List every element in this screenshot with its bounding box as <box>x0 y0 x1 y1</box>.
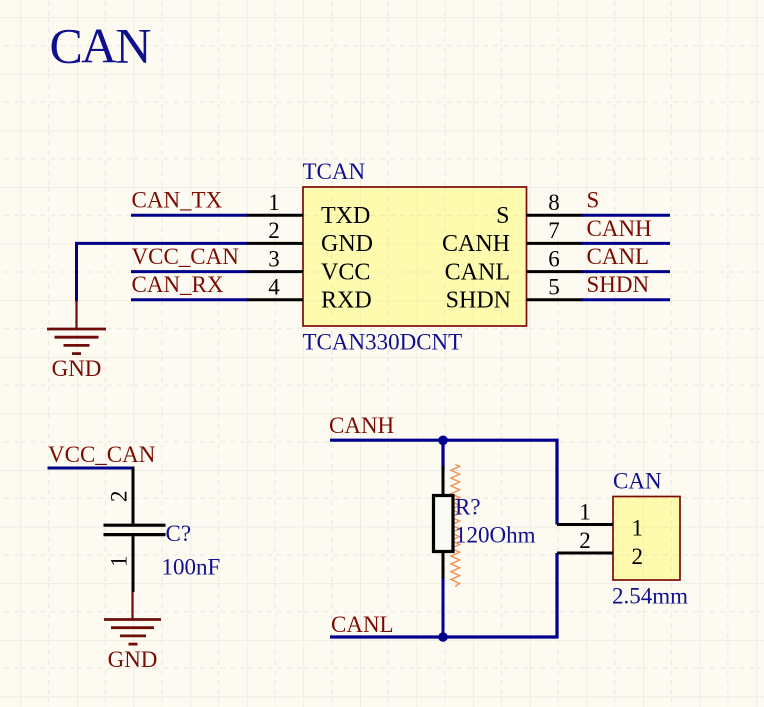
junction CANL <box>438 632 448 642</box>
svg-text:VCC: VCC <box>321 259 370 285</box>
wire CANL (pin 6) <box>582 270 671 273</box>
pin 5 SHDN <box>446 275 583 314</box>
wire SHDN <box>582 298 671 301</box>
svg-text:VCC_CAN: VCC_CAN <box>132 244 240 269</box>
svg-text:TCAN330DCNT: TCAN330DCNT <box>303 330 463 355</box>
wire CAN_TX <box>131 214 248 217</box>
wire VCC_CAN (bottom) <box>48 467 134 470</box>
svg-text:5: 5 <box>548 275 560 300</box>
svg-text:7: 7 <box>548 218 560 243</box>
wire GND (pin 2) <box>77 243 249 301</box>
svg-text:1: 1 <box>268 190 280 215</box>
connector CAN body <box>613 497 680 581</box>
pin 4 RXD <box>247 275 372 314</box>
pin 7 CANH <box>442 218 583 257</box>
svg-text:CAN_TX: CAN_TX <box>132 188 223 213</box>
pin 1 TXD <box>247 190 371 229</box>
svg-text:2: 2 <box>107 491 132 503</box>
svg-text:CAN: CAN <box>613 469 662 494</box>
resistor R? <box>434 465 460 587</box>
svg-text:GND: GND <box>52 356 102 381</box>
svg-text:SHDN: SHDN <box>446 288 511 314</box>
svg-text:S: S <box>496 203 509 229</box>
pin 3 VCC <box>247 246 371 285</box>
wire VCC_CAN <box>131 270 248 273</box>
junction CANH <box>438 436 448 446</box>
svg-text:C?: C? <box>166 521 192 546</box>
svg-text:2: 2 <box>632 544 644 569</box>
svg-text:S: S <box>587 188 600 213</box>
pin 6 CANL <box>445 246 583 285</box>
svg-text:CANL: CANL <box>445 259 510 285</box>
svg-text:CANL: CANL <box>587 244 650 269</box>
svg-text:6: 6 <box>548 246 560 271</box>
svg-text:GND: GND <box>108 647 158 672</box>
svg-text:2: 2 <box>268 218 280 243</box>
capacitor C1 <box>104 467 166 593</box>
svg-text:120Ohm: 120Ohm <box>455 523 536 548</box>
wire S <box>582 214 671 217</box>
wire resistor bottom <box>442 578 445 637</box>
svg-text:1: 1 <box>632 516 644 541</box>
svg-text:TCAN: TCAN <box>303 159 366 184</box>
pin 8 S <box>496 190 583 229</box>
svg-text:CANH: CANH <box>329 413 394 438</box>
wire CAN_RX <box>131 298 248 301</box>
svg-text:2.54mm: 2.54mm <box>612 584 688 609</box>
connector CAN pin 2 <box>557 528 643 569</box>
svg-text:SHDN: SHDN <box>587 272 650 297</box>
svg-text:R?: R? <box>455 495 481 520</box>
svg-text:CAN: CAN <box>50 18 151 74</box>
connector CAN pin 1 <box>557 499 643 540</box>
svg-text:8: 8 <box>548 190 560 215</box>
power port GND (top) <box>47 301 106 354</box>
IC U1 TCAN330DCNT body <box>303 187 527 326</box>
svg-text:CAN_RX: CAN_RX <box>132 272 224 297</box>
wire CANH (bottom) <box>330 440 557 524</box>
svg-text:TXD: TXD <box>321 203 370 229</box>
power port GND (bottom) <box>104 592 161 644</box>
wire CANH (pin 7) <box>582 242 671 245</box>
svg-text:1: 1 <box>107 556 132 568</box>
svg-text:CANH: CANH <box>587 216 652 241</box>
svg-text:3: 3 <box>268 246 280 271</box>
wire CANL (bottom) <box>330 553 557 637</box>
svg-text:VCC_CAN: VCC_CAN <box>48 442 156 467</box>
svg-text:2: 2 <box>579 528 591 553</box>
svg-text:CANH: CANH <box>442 231 510 257</box>
pin 2 GND <box>247 218 373 257</box>
svg-text:100nF: 100nF <box>162 555 221 580</box>
svg-text:RXD: RXD <box>321 288 372 314</box>
wire resistor top <box>441 440 444 470</box>
svg-text:1: 1 <box>579 499 591 524</box>
svg-text:CANL: CANL <box>331 612 394 637</box>
svg-text:4: 4 <box>268 275 280 300</box>
svg-text:GND: GND <box>321 231 373 257</box>
